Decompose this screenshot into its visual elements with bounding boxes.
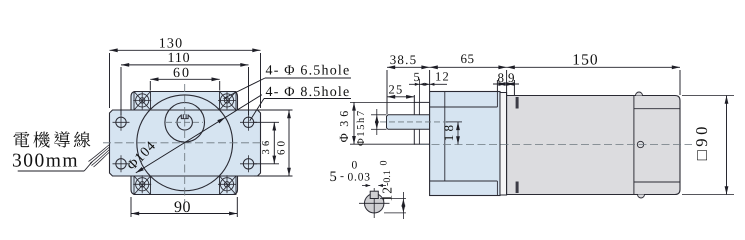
- front view centerlines: [184, 84, 186, 203]
- dim 12 -0.1 vertical: [380, 198, 406, 200]
- motor body: [507, 96, 680, 195]
- dim phi15h7: [371, 114, 387, 116]
- dim 150: [679, 70, 681, 95]
- bolt hole tab bottom-right: [218, 175, 236, 194]
- svg-text:110: 110: [168, 51, 191, 66]
- svg-text:Φ: Φ: [337, 133, 351, 142]
- dim 25: [413, 95, 415, 103]
- leader 4-phi8.5hole: [264, 98, 351, 100]
- side boss phi36: [414, 102, 429, 144]
- svg-text:□90: □90: [692, 123, 711, 160]
- side output shaft phi15: [387, 115, 430, 130]
- shaft end detail circle: [365, 194, 384, 213]
- dim 65: [506, 70, 508, 95]
- rear screw circle: [637, 141, 643, 147]
- rear top bump: [636, 92, 643, 96]
- lead wire leader line: [18, 170, 85, 172]
- svg-text:9: 9: [508, 70, 515, 85]
- dim 18: [446, 121, 462, 123]
- svg-text:300mm: 300mm: [12, 151, 79, 172]
- motor rear cap: [633, 96, 635, 195]
- bolt hole tab top-left (4-phi6.5): [133, 91, 151, 110]
- svg-text:8: 8: [497, 70, 504, 85]
- svg-text:150: 150: [572, 51, 599, 68]
- motor lead wire: [89, 145, 110, 168]
- dim phi104 diagonal: [136, 95, 262, 173]
- svg-text:0: 0: [352, 160, 358, 172]
- ear hole bottom-left: [113, 155, 130, 172]
- bolt hole tab top-right: [218, 91, 236, 110]
- dim 60 top: [149, 81, 151, 91]
- svg-text:60: 60: [276, 138, 288, 155]
- side view centerline (motor axis): [420, 144, 692, 146]
- svg-text:36: 36: [261, 138, 272, 155]
- rear bottom bump: [638, 195, 645, 199]
- dims 8 and 9: [496, 80, 498, 91]
- svg-text:3: 3: [337, 121, 351, 127]
- output shaft with keyway: [177, 114, 192, 130]
- svg-text:18: 18: [441, 122, 456, 141]
- boss circle: [165, 103, 205, 143]
- front view: flange plate: [110, 110, 261, 176]
- ear hole top-right: [240, 114, 257, 131]
- dim 130: [109, 53, 111, 108]
- svg-text:65: 65: [461, 51, 475, 66]
- adapter ring: [500, 93, 507, 196]
- gearbox block: [430, 92, 500, 196]
- dim 36 right: [254, 121, 279, 123]
- dim 90 bottom: [130, 197, 132, 217]
- gearbox internal lines: [444, 92, 446, 182]
- front view: top band: [131, 92, 238, 111]
- svg-text:6: 6: [337, 111, 351, 117]
- svg-text:12: 12: [435, 70, 450, 84]
- svg-text:38.5: 38.5: [390, 52, 418, 67]
- chinese text dian ji dao xian: [13, 131, 90, 147]
- motor through-bolt bottom: [516, 182, 519, 194]
- side view shaft centerline: [380, 121, 448, 123]
- phi104 flange circle: [137, 95, 233, 191]
- ear hole bottom-right: [240, 155, 257, 172]
- svg-text:Φ15h7: Φ15h7: [356, 109, 367, 146]
- dim 110: [120, 67, 122, 115]
- svg-text:-0.1: -0.1: [382, 170, 393, 186]
- front view: bottom band: [131, 176, 238, 195]
- key width dim 5 -0.03: [362, 185, 370, 187]
- motor through-bolt top: [516, 97, 519, 109]
- svg-text:5: 5: [330, 169, 337, 185]
- svg-text:90: 90: [174, 199, 191, 216]
- svg-text:4- Φ 6.5hole: 4- Φ 6.5hole: [266, 64, 351, 79]
- svg-text:-: -: [340, 169, 344, 183]
- svg-text:0.03: 0.03: [348, 172, 371, 184]
- leader 4-phi6.5hole: [265, 77, 351, 79]
- dim square90: [682, 95, 734, 97]
- bolt hole tab bottom-left: [133, 175, 151, 194]
- svg-text:4- Φ 8.5hole: 4- Φ 8.5hole: [266, 85, 351, 100]
- svg-text:5: 5: [413, 70, 419, 84]
- svg-text:12: 12: [380, 186, 395, 202]
- svg-text:0: 0: [379, 161, 390, 166]
- svg-text:60: 60: [173, 66, 191, 81]
- dims 5 and 12: [418, 79, 420, 102]
- ear hole top-left (4-phi8.5): [113, 114, 130, 131]
- dim 38.5: [386, 70, 388, 114]
- dim phi36: [350, 101, 415, 103]
- svg-text:130: 130: [159, 36, 184, 51]
- svg-text:25: 25: [389, 83, 404, 97]
- key on shaft detail: [370, 191, 378, 198]
- dim 60 right: [254, 109, 293, 111]
